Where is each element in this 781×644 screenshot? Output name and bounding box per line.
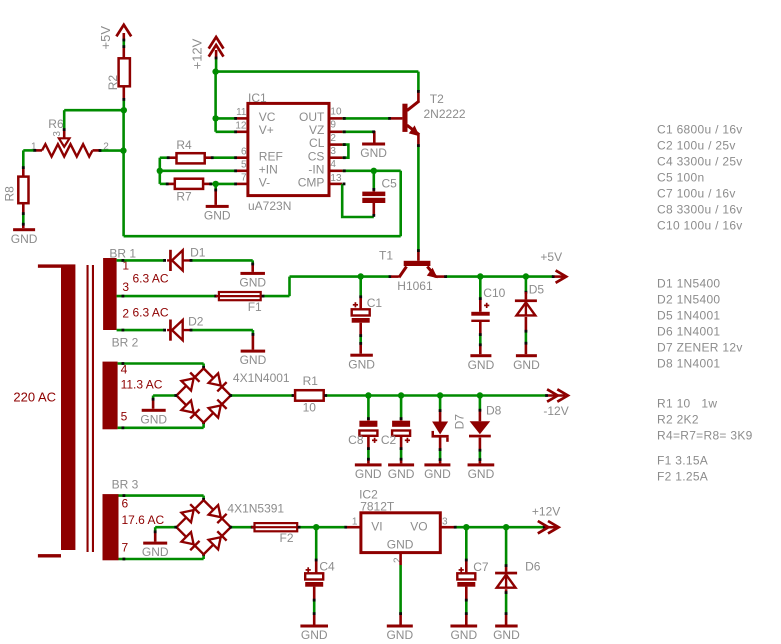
ground D1 [240,272,265,275]
svg-text:GND: GND [348,357,375,371]
svg-text:VC: VC [259,110,276,124]
wire +12V to T2 collector [216,70,419,73]
node C7 junction [463,524,469,530]
bridge rectifier 4X1N4001 [177,368,231,422]
wire pin5 to bridge [118,426,204,429]
svg-text:GND: GND [11,232,38,246]
svg-text:GND: GND [424,467,451,481]
wire +12V to VC/V+ [214,72,217,132]
ground BR3 [143,542,167,545]
svg-text:CL: CL [309,136,325,150]
resistor R1 [295,390,324,401]
wire D6 top [505,527,508,565]
wire to pin V+ [216,131,236,134]
node B junction R6 pin2 [120,147,126,153]
wire C7 top [465,527,468,560]
svg-text:2N2222: 2N2222 [424,107,466,121]
svg-text:R7: R7 [176,190,192,204]
wire F2 to node [300,526,315,529]
svg-text:V+: V+ [259,123,274,137]
svg-text:5: 5 [121,409,128,423]
zener diode D7 [432,422,448,435]
node V- junction [213,181,219,187]
svg-text:D6 1N4001: D6 1N4001 [657,325,720,339]
node D7 junction [437,392,443,398]
svg-text:D5: D5 [529,282,545,296]
wire C1 top [359,277,362,297]
wire bridge left to ground BR3 [155,526,176,529]
node C4 junction [313,524,319,530]
svg-text:V-: V- [259,176,270,190]
wire pin3 to F1 [117,295,216,298]
wire C10 to ground [479,322,482,335]
node -IN junction [371,168,377,174]
wire C2 top [400,396,403,419]
wire pin4 to bridge [118,362,204,365]
wire D2 to ground [192,329,253,332]
svg-text:C5: C5 [382,177,398,191]
wire C7 to ground [465,587,468,600]
svg-text:F2: F2 [280,531,294,545]
ground C2 [388,463,414,466]
node +12V junction [212,68,218,74]
transformer primary winding [61,264,75,550]
svg-text:D1 1N5400: D1 1N5400 [657,277,720,291]
wire D7 top [439,396,442,411]
svg-text:C8: C8 [348,433,364,447]
wire node to VI [316,526,345,529]
svg-text:GND: GND [240,353,267,367]
wire VZ to ground [343,131,375,134]
ground D6 [495,625,518,628]
svg-text:-IN: -IN [308,162,324,176]
svg-text:GND: GND [360,146,387,160]
wire D6 to ground [505,589,508,592]
svg-text:D7 ZENER 12v: D7 ZENER 12v [657,341,743,355]
svg-text:5: 5 [241,160,247,171]
svg-text:+IN: +IN [259,162,278,176]
wire IC2 pin2 to ground [399,553,402,565]
wire pin2 to D2 [117,329,164,332]
svg-text:4: 4 [330,159,336,170]
fuse F1 [219,292,261,300]
svg-text:17.6 AC: 17.6 AC [122,513,165,527]
resistor R8 [18,177,28,204]
transformer core [87,265,89,552]
node D8 junction [477,392,483,398]
wire D5 top [525,277,528,292]
resistor R2 [119,58,130,86]
wire R2 to node [123,86,126,99]
wire node to R6 wiper [64,109,124,112]
svg-text:220 AC: 220 AC [13,389,56,404]
svg-text:GND: GND [239,276,266,290]
capacitor C5 [372,171,375,190]
wire T2 emitter to T1 base [417,134,420,145]
svg-text:11: 11 [236,107,247,118]
svg-text:GND: GND [513,358,540,372]
IC1 pin stubs right [329,117,343,120]
wire bridge right to R1 [231,394,293,397]
svg-text:+12V: +12V [190,38,205,69]
ground BR2 [142,409,166,412]
svg-text:7: 7 [241,173,247,184]
svg-text:10: 10 [303,400,317,414]
svg-text:6: 6 [241,147,247,158]
wire bridge right to F2 [231,526,253,529]
resistor R4 [177,153,205,163]
svg-text:13: 13 [330,173,342,184]
svg-text:R1: R1 [303,374,319,388]
svg-text:R2 2K2: R2 2K2 [657,413,699,427]
arrow +5V rail [555,275,565,278]
ground C4 [300,625,328,628]
svg-text:10: 10 [330,107,342,118]
svg-text:C2: C2 [381,433,397,447]
ground VZ [362,143,385,146]
svg-text:GND: GND [387,538,414,552]
wire CL-CS loop [343,145,349,158]
wire V- to ground [214,184,217,190]
svg-text:4X1N4001: 4X1N4001 [233,371,290,385]
wire CMP down-right to C5 [342,184,374,217]
svg-text:C7 100u / 16v: C7 100u / 16v [657,187,736,201]
ground C10 [470,354,491,357]
wire C8 top [367,396,370,419]
node C2 junction [398,392,404,398]
wire vertical feedback [122,110,125,236]
svg-text:R6: R6 [48,117,64,131]
svg-text:+5V: +5V [98,26,113,50]
wire C8 to ground [367,436,370,449]
resistor R7 [175,179,203,189]
capacitor C1 [353,304,358,306]
wire D8 top [479,396,482,411]
op-amp regulator IC1 uA723N box [248,103,329,195]
wire C1 to ground [359,323,362,336]
svg-text:C7: C7 [473,560,489,574]
wire D5 to ground [525,317,528,331]
wire -IN row [343,170,401,173]
svg-text:VZ: VZ [309,123,324,137]
wire C2 to ground [400,436,403,449]
svg-text:C8 3300u / 16v: C8 3300u / 16v [657,203,743,217]
svg-text:D5 1N4001: D5 1N4001 [657,309,720,323]
wire feedback up to -IN [399,171,402,236]
supply +12V symbol [209,37,224,49]
svg-text:D7: D7 [452,414,466,430]
svg-text:GND: GND [386,628,413,642]
svg-text:R4=R7=R8= 3K9: R4=R7=R8= 3K9 [657,429,753,443]
svg-text:3: 3 [122,280,129,294]
wire feedback bottom run [124,235,401,238]
svg-text:GND: GND [450,628,477,642]
svg-text:CMP: CMP [298,176,325,190]
transistor T1 H1061 [404,261,431,266]
bridge rectifier 4X1N5391 [177,500,231,554]
ground D7 [424,463,450,466]
svg-text:6: 6 [122,496,129,510]
svg-text:11.3 AC: 11.3 AC [121,377,163,391]
wire +12V down [215,58,218,71]
svg-text:F1 3.15A: F1 3.15A [657,454,708,468]
svg-text:C10: C10 [483,286,505,300]
svg-text:GND: GND [142,545,169,559]
supply +5V symbol [116,25,131,37]
svg-text:H1061: H1061 [397,279,433,293]
svg-text:GND: GND [140,412,167,426]
wire C10 top [479,277,482,299]
svg-text:2: 2 [330,133,336,144]
node C10 junction [477,273,483,279]
node A junction R2/R6 wiper [121,107,127,113]
svg-text:VO: VO [410,519,427,533]
wire R7 to V- node [203,183,210,186]
svg-text:BR 2: BR 2 [112,336,139,350]
wire D8 to ground [479,438,482,450]
wire R8 to ground [22,203,25,213]
node C8 junction [365,392,371,398]
diode D6 [495,572,517,575]
wire bridge left to ground BR2 [153,394,176,397]
wire pin7 to bridge BR3 [119,558,204,561]
svg-text:F1: F1 [248,300,262,314]
svg-text:GND: GND [388,467,415,481]
svg-text:VI: VI [371,519,382,533]
wire R6 pin1 [36,149,42,152]
wire +IN to pin 5 [160,170,236,173]
capacitor C4 [306,569,311,571]
svg-text:C1: C1 [367,296,383,310]
svg-text:T1: T1 [379,249,393,263]
fuse F2 [255,523,298,531]
svg-text:R1 10 1w: R1 10 1w [657,397,717,411]
svg-text:uA723N: uA723N [248,199,291,213]
svg-text:T2: T2 [430,92,444,106]
svg-text:IC1: IC1 [248,91,267,105]
svg-text:D2 1N5400: D2 1N5400 [657,293,720,307]
wire C4 to ground [313,587,316,600]
ground D5 [516,354,537,357]
svg-text:OUT: OUT [299,110,325,124]
svg-text:+5V: +5V [540,250,562,264]
wire R7 left [160,183,167,186]
svg-text:-12V: -12V [543,404,568,418]
arrow -12V rail [548,394,565,397]
ground below R7 [206,205,229,208]
wire R8 top [22,150,25,167]
svg-text:GND: GND [301,628,328,642]
svg-text:3: 3 [442,517,448,528]
svg-text:4X1N5391: 4X1N5391 [227,502,284,516]
ground C8 [355,463,382,466]
svg-text:12: 12 [235,120,247,131]
wire D7 to ground [439,437,442,450]
transistor T2 2N2222 [402,104,407,132]
wire to pin VC [216,117,236,120]
svg-text:GND: GND [493,628,520,642]
diode D5 [515,299,537,302]
node C1 junction [358,273,364,279]
svg-text:7: 7 [122,541,129,555]
svg-text:+12V: +12V [532,505,560,519]
node D5 junction [523,273,529,279]
wire T1 emitter to +5V [436,275,445,278]
svg-text:GND: GND [468,467,495,481]
ground below R8 [13,228,35,231]
ground C1 [350,354,373,357]
svg-text:D8: D8 [486,403,502,417]
svg-text:6.3 AC: 6.3 AC [133,305,169,319]
svg-text:C1 6800u / 16v: C1 6800u / 16v [657,123,743,137]
svg-text:C5 100n: C5 100n [657,171,704,185]
svg-text:CS: CS [308,149,325,163]
node +IN junction [157,168,163,174]
regulator IC2 7812T box [361,513,440,553]
wire F1 to +5V rail [264,295,290,298]
svg-text:F2 1.25A: F2 1.25A [657,470,708,484]
svg-text:7812T: 7812T [360,499,395,513]
svg-text:GND: GND [468,358,495,372]
svg-text:C4: C4 [319,559,335,573]
svg-text:R2: R2 [106,75,120,91]
capacitor C10 [484,304,489,306]
svg-text:D8 1N4001: D8 1N4001 [657,357,720,371]
svg-text:D1: D1 [190,246,206,260]
svg-text:6.3 AC: 6.3 AC [133,272,169,286]
diode D1 [167,259,191,261]
wire R4 to pin REF [205,156,212,159]
wire -12V rail [326,394,547,397]
svg-text:GND: GND [355,467,382,481]
svg-text:3: 3 [52,131,63,137]
node D6 junction [503,524,509,530]
wire VO to +12V rail [440,526,454,529]
svg-text:3: 3 [330,146,336,157]
svg-text:D2: D2 [188,314,204,328]
wire pin1 to D1 [117,259,164,262]
svg-text:C4 3300u / 25v: C4 3300u / 25v [657,155,743,169]
wire +IN net vertical [159,158,162,184]
wire T2 collector up [417,93,420,102]
wire pin6 to bridge BR3 [119,494,204,497]
svg-text:R4: R4 [176,138,192,152]
diode D2 [167,329,191,331]
svg-text:GND: GND [204,209,231,223]
svg-text:1: 1 [352,517,358,528]
svg-text:BR 3: BR 3 [112,477,139,491]
svg-text:2: 2 [122,306,129,320]
wire +5V to R2 [123,41,126,48]
wire R4 left [160,156,168,159]
ground D8 [468,463,495,466]
trimmer R6 [42,144,93,156]
wire D1 to ground [192,259,253,262]
svg-text:D6: D6 [525,559,541,573]
ground D2 [241,350,266,353]
node VC junction [212,115,218,121]
svg-text:C10 100u / 16v: C10 100u / 16v [657,219,743,233]
wire C4 top [315,527,318,560]
diode D8 [470,421,491,434]
svg-text:9: 9 [330,120,336,131]
svg-text:REF: REF [259,149,283,163]
wire R6 pin2 to node [93,149,100,152]
svg-text:C2 100u / 25v: C2 100u / 25v [657,139,736,153]
capacitor C2 [392,421,410,427]
svg-text:R8: R8 [2,186,16,202]
capacitor C8 [359,421,377,427]
ground C7 [450,625,477,628]
ground IC2 [387,625,413,628]
arrow +12V rail [546,526,557,529]
wire OUT to T2 base [343,117,390,120]
capacitor C7 [459,569,464,571]
wire to T1 collector [361,275,390,278]
